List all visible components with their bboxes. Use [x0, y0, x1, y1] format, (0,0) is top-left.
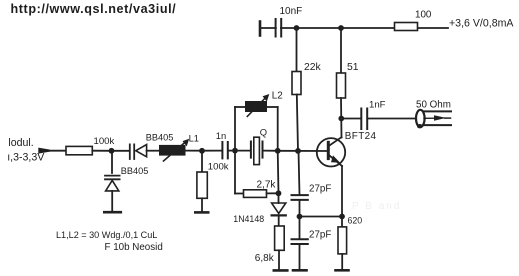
node L1 / 100k / 1n	[199, 148, 205, 154]
wire between 27pF caps	[299, 200, 301, 239]
wire lower 27pF to ground	[299, 244, 301, 269]
svg-text:100k: 100k	[208, 162, 229, 173]
wire L2 loop left vertical	[234, 107, 236, 151]
wire node to varactor D1	[112, 150, 130, 152]
svg-text:L1: L1	[189, 132, 199, 143]
wire varactor to L1	[147, 150, 159, 152]
wire diode to 6,8k	[278, 215, 280, 226]
terminal input of 10nF	[259, 22, 262, 36]
node input / varactor	[109, 148, 115, 154]
resistor R 22k	[292, 62, 322, 95]
ground under 27pF	[293, 269, 307, 272]
wire varactor D2 to ground	[111, 191, 113, 211]
ground under varactor D2	[104, 211, 121, 214]
svg-text:10nF: 10nF	[280, 6, 303, 17]
svg-text:51: 51	[347, 62, 359, 73]
resistor R 2,7k	[244, 180, 277, 198]
wire L1 to node	[186, 150, 203, 152]
svg-text:http://www.qsl.net/va3iul/: http://www.qsl.net/va3iul/	[11, 2, 177, 16]
svg-text:ı,3-3,3V: ı,3-3,3V	[7, 152, 45, 164]
svg-text:P B and: P B and	[352, 201, 401, 212]
svg-text:6,8k: 6,8k	[255, 253, 275, 264]
output connector 50 Ohm	[416, 100, 451, 129]
input terminal arrow	[38, 148, 50, 154]
capacitor C 27pF lower	[292, 230, 332, 245]
svg-text:2,7k: 2,7k	[257, 180, 277, 191]
wire collector column	[340, 98, 343, 138]
svg-text:50 Ohm: 50 Ohm	[416, 100, 451, 111]
wire 1nF to output	[369, 118, 417, 120]
inductor L1	[159, 132, 199, 161]
svg-text:22k: 22k	[304, 62, 322, 73]
svg-text:100k: 100k	[94, 136, 115, 147]
svg-text:620: 620	[348, 215, 363, 225]
wire 6,8k to ground	[278, 250, 280, 269]
inductor L2	[245, 90, 283, 116]
wire top supply rail	[260, 27, 448, 29]
wire 620 to ground	[341, 254, 343, 269]
wire 1n to crystal node	[229, 150, 235, 152]
svg-text:BFT24: BFT24	[345, 131, 377, 142]
wire 51 column top	[340, 28, 342, 73]
svg-text:BB405: BB405	[121, 166, 149, 176]
wire node to 1n	[202, 150, 221, 152]
resistor 100	[395, 9, 432, 30]
svg-text:27pF: 27pF	[309, 184, 331, 195]
resistor R 100k shunt	[197, 162, 229, 199]
capacitor C 1n	[216, 130, 228, 158]
svg-text:1n: 1n	[216, 130, 226, 141]
wire crystal left lead	[235, 150, 250, 152]
svg-text:L1,L2 = 30 Wdg./0,1 CuL: L1,L2 = 30 Wdg./0,1 CuL	[56, 230, 157, 240]
capacitor C 1nF	[361, 99, 385, 129]
svg-text:100: 100	[415, 9, 432, 20]
node base / crystal right	[275, 148, 281, 154]
svg-text:lodul.: lodul.	[8, 137, 33, 149]
wire L2 right lead	[267, 106, 278, 108]
wire emitter down	[341, 166, 343, 217]
transistor Q1 BFT24	[317, 131, 377, 167]
wire crystal right lead	[264, 150, 278, 152]
svg-text:L2: L2	[272, 90, 283, 101]
wire crystal right node down	[277, 151, 280, 194]
wire base node down to 27pF	[299, 151, 300, 195]
wire 22k column top	[296, 28, 298, 72]
svg-text:27pF: 27pF	[309, 230, 331, 241]
node collector / 1nF	[338, 116, 344, 122]
svg-text:F 10b Neosid: F 10b Neosid	[105, 242, 163, 253]
ground under 100k shunt	[195, 211, 208, 214]
node crystal left	[232, 148, 238, 154]
wire L2 loop right vertical	[277, 107, 279, 151]
wire 2,7k left lead	[235, 193, 244, 195]
resistor R 51	[337, 62, 359, 98]
node 2,7k / diode	[276, 190, 282, 196]
svg-text:1N4148: 1N4148	[233, 214, 264, 224]
node 27pF midpoint	[297, 214, 303, 220]
resistor R 6,8k	[255, 226, 284, 264]
svg-text:BB405: BB405	[146, 133, 174, 143]
wire L2 left lead	[235, 106, 246, 108]
wire 22k bottom to base line	[297, 95, 298, 151]
wire base line	[278, 150, 327, 152]
resistor R 100k series	[66, 136, 115, 155]
wire left vertical down to 2,7k	[234, 151, 236, 194]
ground under 6,8k	[274, 269, 288, 272]
wire 100k shunt to ground	[201, 198, 203, 211]
resistor R 620	[338, 215, 362, 254]
varactor D BB405 shunt	[105, 166, 148, 191]
wire node down to varactor D2	[111, 151, 113, 175]
capacitor C 10nF	[276, 6, 303, 37]
node top-rail / 22k	[294, 25, 300, 31]
node top-rail / 51	[338, 25, 344, 31]
capacitor C 27pF upper	[292, 184, 332, 200]
wire to 1nF	[341, 118, 360, 120]
crystal Q	[251, 127, 267, 165]
ground under 620	[336, 269, 349, 272]
wire 100k to node	[92, 150, 111, 152]
wire 2,7k right lead	[267, 192, 279, 194]
wire node down to 100k shunt	[201, 151, 203, 172]
diode D 1N4148	[233, 193, 285, 224]
node base / 22k-27pF column	[295, 148, 301, 154]
wire input to 100k	[49, 150, 66, 152]
node emitter / 27pF midpoint	[339, 214, 345, 220]
svg-text:Q: Q	[260, 127, 267, 138]
wire emitter node to 27pF midpoint	[300, 216, 343, 218]
varactor D BB405 series	[130, 133, 174, 159]
svg-text:+3,6 V/0,8mA: +3,6 V/0,8mA	[449, 17, 514, 29]
svg-text:1nF: 1nF	[369, 99, 386, 110]
